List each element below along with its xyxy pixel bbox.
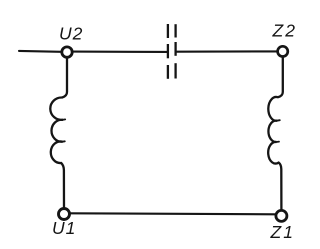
capacitor C right plate (segmented)	[174, 24, 176, 78]
wire L1 cusp tick 2	[62, 140, 65, 142]
wire L2 cusp tick 1	[277, 119, 280, 122]
svg-text:Z1: Z1	[270, 222, 295, 242]
wire U2 to capacitor	[74, 51, 168, 53]
node terminal Z2	[278, 46, 288, 56]
node terminal U1	[59, 209, 70, 220]
svg-text:U1: U1	[52, 218, 76, 238]
svg-text:Z2: Z2	[272, 21, 297, 41]
inductor L2 (right coil)	[268, 58, 283, 209]
node terminal U2	[62, 47, 72, 57]
wire L2 cusp tick 2	[276, 141, 279, 143]
inductor L1 (left coil)	[50, 59, 67, 207]
node terminal Z1	[276, 210, 287, 221]
wire left input lead	[19, 50, 62, 53]
wire bottom U1 to Z1	[71, 213, 276, 214]
capacitor C left plate (segmented)	[167, 24, 169, 79]
svg-text:U2: U2	[59, 24, 83, 44]
wire L1 cusp tick 1	[63, 118, 66, 120]
wire capacitor to Z2	[176, 50, 277, 52]
